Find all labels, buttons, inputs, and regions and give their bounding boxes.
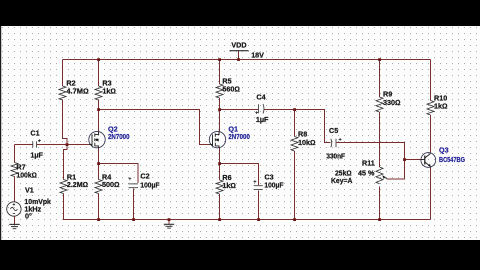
- svg-text:1kΩ: 1kΩ: [434, 102, 448, 111]
- svg-text:560Ω: 560Ω: [222, 85, 240, 94]
- svg-text:1µF: 1µF: [30, 151, 43, 160]
- svg-text:BC547BG: BC547BG: [439, 155, 465, 164]
- svg-text:1kΩ: 1kΩ: [102, 87, 116, 96]
- svg-text:V1: V1: [25, 186, 34, 195]
- svg-text:18V: 18V: [251, 51, 264, 60]
- svg-text:2N7000: 2N7000: [228, 132, 250, 141]
- svg-text:100µF: 100µF: [140, 181, 160, 190]
- svg-text:1µF: 1µF: [256, 115, 269, 124]
- svg-text:Key=A: Key=A: [331, 176, 352, 185]
- svg-text:0°: 0°: [25, 212, 32, 221]
- svg-text:2N7000: 2N7000: [108, 132, 130, 141]
- svg-text:C1: C1: [30, 129, 39, 138]
- svg-text:100kΩ: 100kΩ: [16, 171, 37, 180]
- svg-text:2.2MΩ: 2.2MΩ: [67, 180, 88, 189]
- svg-text:45 %: 45 %: [358, 169, 375, 178]
- svg-text:330Ω: 330Ω: [383, 98, 401, 107]
- svg-text:4.7MΩ: 4.7MΩ: [66, 87, 88, 96]
- svg-text:1kΩ: 1kΩ: [222, 181, 236, 190]
- svg-text:500Ω: 500Ω: [102, 180, 120, 189]
- svg-text:C5: C5: [329, 126, 338, 135]
- svg-text:R11: R11: [362, 159, 375, 168]
- svg-text:330nF: 330nF: [326, 152, 345, 161]
- svg-text:100µF: 100µF: [264, 181, 284, 190]
- svg-text:VDD: VDD: [231, 41, 246, 50]
- svg-text:10kΩ: 10kΩ: [298, 138, 316, 147]
- svg-text:C2: C2: [140, 172, 149, 181]
- svg-text:Q3: Q3: [439, 146, 449, 155]
- svg-text:C4: C4: [256, 93, 265, 102]
